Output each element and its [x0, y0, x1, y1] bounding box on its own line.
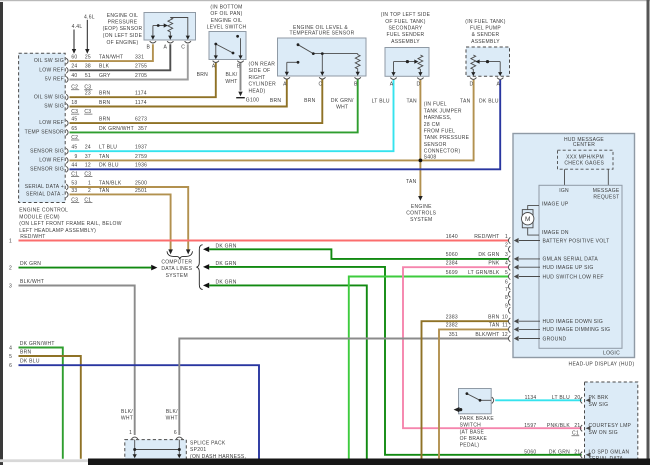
svg-text:OIL SW SIG: OIL SW SIG	[34, 58, 64, 64]
svg-text:MODULE (ECM): MODULE (ECM)	[19, 214, 60, 220]
svg-text:2759: 2759	[135, 154, 147, 160]
node number 2 (left edge)	[9, 266, 12, 272]
svg-text:DK GRN: DK GRN	[478, 252, 499, 258]
svg-text:LOGIC: LOGIC	[603, 351, 620, 357]
svg-text:& SENDER: & SENDER	[472, 32, 500, 38]
svg-text:25: 25	[85, 55, 91, 61]
node number 3 (left edge)	[9, 284, 12, 290]
svg-text:LOW REF: LOW REF	[39, 120, 64, 126]
svg-text:GROUND: GROUND	[543, 336, 567, 342]
label TAN (engine controls branch)	[406, 179, 417, 185]
HUD logic inner box	[539, 185, 622, 348]
splice pack SP201 internals	[135, 440, 180, 455]
HUD pin 4 (HUD image up sig)	[505, 261, 594, 272]
svg-text:5V REF: 5V REF	[45, 77, 64, 83]
HUD pin 5 (HUD switch low ref)	[505, 270, 604, 281]
bottom-left gray strip	[0, 459, 88, 462]
svg-text:SYSTEM: SYSTEM	[410, 217, 432, 223]
svg-text:FROM FUEL: FROM FUEL	[424, 129, 455, 135]
svg-text:2755: 2755	[135, 64, 147, 70]
svg-text:DK GRN: DK GRN	[216, 261, 237, 267]
svg-text:9: 9	[505, 303, 508, 309]
svg-text:38: 38	[85, 64, 91, 70]
oil level & temp sensor pin letters A C B	[283, 81, 358, 87]
svg-text:MESSAGE: MESSAGE	[593, 188, 620, 194]
svg-text:RIGHT: RIGHT	[249, 75, 266, 81]
secondary fuel sender title	[381, 12, 431, 45]
svg-text:33: 33	[71, 188, 77, 194]
HUD pin 6 (unused)	[505, 279, 510, 289]
svg-text:BLK/: BLK/	[121, 409, 133, 415]
left window bar	[0, 2, 3, 465]
svg-text:ENGINE CONTROL: ENGINE CONTROL	[19, 208, 68, 214]
svg-text:ASSEMBLY: ASSEMBLY	[391, 39, 420, 45]
ECM pin number / wire id text rows	[71, 55, 147, 204]
svg-text:DK GRN/WHT: DK GRN/WHT	[20, 341, 55, 347]
park brake switch pin arc	[492, 397, 494, 403]
svg-text:12: 12	[502, 332, 508, 338]
svg-text:SECONDARY: SECONDARY	[388, 26, 422, 32]
svg-text:1174: 1174	[135, 91, 147, 97]
svg-text:5: 5	[9, 354, 12, 360]
node number 6 (left edge)	[9, 363, 12, 369]
svg-text:GMLAN SERIAL DATA: GMLAN SERIAL DATA	[543, 257, 599, 263]
BCM pin pk brk sw sig	[580, 395, 609, 408]
svg-text:LO SPD GMLAN: LO SPD GMLAN	[589, 450, 630, 456]
label 2383 BRN (HUD pin 10 wire)	[446, 315, 500, 321]
label 4.4L	[72, 24, 83, 30]
wire TAN 2759 (ECM to fuel pump sender pin D via S408)	[70, 80, 474, 161]
svg-text:5: 5	[505, 270, 508, 276]
svg-text:24: 24	[71, 64, 77, 70]
node number 1 (left edge)	[9, 239, 12, 245]
wire GRY 2705 (ECM to EOP pin C)	[70, 44, 188, 79]
svg-text:GRY: GRY	[99, 73, 111, 79]
wire stubs message center to logic box	[565, 169, 609, 185]
svg-text:BRN: BRN	[99, 91, 111, 97]
pin 6 (splice pack)	[174, 430, 177, 436]
svg-text:LOW REF: LOW REF	[39, 67, 64, 73]
svg-text:REQUEST: REQUEST	[593, 195, 619, 201]
label BLK/WHT (switch pin B wire)	[225, 72, 237, 85]
svg-text:(IN TOP LEFT SIDE: (IN TOP LEFT SIDE	[381, 12, 431, 18]
svg-text:28 CM: 28 CM	[424, 122, 440, 128]
label 5060 DK GRN 21	[524, 450, 580, 456]
svg-text:3: 3	[505, 252, 508, 258]
svg-text:WHT: WHT	[166, 416, 178, 422]
HUD pin 11 (HUD image dimming sig)	[502, 323, 610, 334]
svg-text:TAN: TAN	[489, 323, 500, 329]
ground G100	[236, 92, 259, 104]
fuel pump & sender pin arcs	[470, 78, 503, 80]
svg-text:DK GRN: DK GRN	[549, 450, 570, 456]
caption PARK BRAKE SWITCH (AT BASE OF BRAKE PEDAL)	[460, 416, 495, 449]
svg-text:CONNECTOR): CONNECTOR)	[424, 149, 461, 155]
wire PNK 2384 / PNK-BLK 1597 (HUD pin 4 to BCM courtesy lamp)	[403, 267, 582, 428]
label BLK/WHT (splice pack pin 6 lead)	[166, 409, 178, 422]
svg-text:53: 53	[71, 180, 77, 186]
label BLK/WHT (splice pack pin 1 lead)	[121, 409, 133, 422]
svg-text:BRN: BRN	[99, 100, 111, 106]
svg-text:BLK: BLK	[99, 64, 110, 70]
svg-text:ENGINE OIL: ENGINE OIL	[211, 18, 242, 24]
svg-text:LOW REF: LOW REF	[39, 158, 64, 164]
svg-text:351: 351	[449, 332, 458, 338]
engine oil level switch box	[209, 32, 246, 60]
svg-text:HARNESS,: HARNESS,	[424, 115, 452, 121]
svg-text:LEVEL SWITCH: LEVEL SWITCH	[207, 25, 247, 31]
svg-text:6: 6	[505, 279, 508, 285]
arrow 4.6L column pointer	[85, 20, 89, 54]
svg-text:1: 1	[505, 234, 508, 240]
wire DK GRN (left, to computer data lines system)	[19, 265, 158, 271]
svg-text:2382: 2382	[446, 323, 458, 329]
svg-text:1640: 1640	[446, 234, 458, 240]
svg-text:2501: 2501	[135, 188, 147, 194]
label 2384 PNK (HUD pin 4 wire)	[446, 261, 500, 267]
park brake switch internals	[466, 392, 492, 401]
svg-text:FUEL SENDER: FUEL SENDER	[387, 32, 425, 38]
svg-text:357: 357	[138, 126, 147, 132]
label 4.6L	[84, 14, 95, 20]
label 5699 LT GRN/BLK (HUD pin 5 wire)	[446, 270, 500, 276]
wire BLK/WHT (left line 3 to splice pack pin 1)	[19, 286, 135, 436]
svg-text:5699: 5699	[446, 270, 458, 276]
svg-text:CYLINDER: CYLINDER	[249, 82, 277, 88]
svg-text:BATTERY POSITIVE VOLT: BATTERY POSITIVE VOLT	[543, 238, 610, 244]
wire LT BLU 1134 (park brake switch to BCM)	[495, 399, 581, 401]
svg-text:HUD SWITCH LOW REF: HUD SWITCH LOW REF	[543, 274, 604, 280]
caption fuel tank jumper harness	[424, 102, 470, 155]
label 1134 LT BLU 20	[525, 395, 581, 401]
label BRN (temp sensor pin A)	[270, 98, 282, 104]
HUD pin 7 (unused)	[505, 287, 510, 297]
svg-text:FUEL PUMP: FUEL PUMP	[470, 26, 501, 32]
svg-text:BRN: BRN	[270, 98, 282, 104]
svg-text:S408: S408	[424, 154, 437, 160]
svg-text:OF FUEL TANK): OF FUEL TANK)	[385, 19, 426, 25]
svg-text:PNK: PNK	[488, 261, 500, 267]
ECM caption text block	[19, 208, 121, 240]
svg-text:4: 4	[505, 261, 508, 267]
svg-text:SIDE OF: SIDE OF	[249, 68, 271, 74]
svg-text:20: 20	[574, 395, 580, 401]
svg-text:RED/WHT: RED/WHT	[20, 234, 45, 240]
wire RED/WHT 1640 (battery positive to HUD pin 1)	[19, 240, 509, 242]
ECM connector box (engine control module)	[19, 53, 66, 202]
svg-text:11: 11	[502, 323, 508, 329]
wire TAN/BLK 2500 (serial data + to computer data lines)	[70, 187, 191, 254]
wire TAN 2382 (HUD pin 11 drop)	[439, 329, 508, 458]
svg-text:23: 23	[85, 91, 91, 97]
brace for DK GRN group (computer data lines)	[196, 245, 202, 290]
ECM pin labels (left column)	[25, 58, 64, 197]
svg-text:PRESSURE: PRESSURE	[108, 19, 138, 25]
label XXX MPH/KPM CHECK GAGES	[564, 154, 604, 166]
HUD pin 8 (unused)	[505, 295, 510, 305]
svg-text:COURTESY LMP: COURTESY LMP	[589, 423, 632, 429]
svg-text:DK GRN: DK GRN	[216, 243, 237, 249]
svg-text:D: D	[469, 82, 473, 88]
svg-text:2: 2	[88, 188, 91, 194]
svg-text:(IN BOTTOM: (IN BOTTOM	[210, 4, 242, 10]
HUD pin 10 (HUD image down sig)	[502, 315, 603, 326]
svg-text:10: 10	[502, 315, 508, 321]
oil level & temp sensor internals	[287, 45, 360, 72]
svg-text:6273: 6273	[135, 117, 147, 123]
wire TAN/WHT 331 (ECM to EOP pin B)	[70, 44, 153, 61]
svg-text:4.6L: 4.6L	[84, 14, 95, 20]
wire TAN 2501 (serial data - to computer data lines)	[70, 194, 173, 254]
connector C1 label	[572, 431, 580, 437]
fuel pump & sender assembly box	[466, 47, 510, 76]
svg-text:BRN: BRN	[197, 72, 209, 78]
svg-text:TAN: TAN	[460, 99, 471, 105]
svg-text:LT BLU: LT BLU	[552, 395, 570, 401]
svg-text:1: 1	[129, 430, 132, 436]
wire LT GRN/BLK 5699 (HUD pin 5 drop)	[349, 277, 508, 459]
fuel pump & sender title	[465, 19, 506, 45]
svg-text:TANK PRESSURE: TANK PRESSURE	[424, 135, 470, 141]
svg-text:A: A	[163, 44, 167, 50]
svg-text:24: 24	[85, 145, 91, 151]
node number 4 (left edge)	[9, 345, 12, 351]
svg-text:3: 3	[9, 284, 12, 290]
oil level & temp sensor pin arcs	[284, 77, 361, 79]
wire BRN 1174 (ECM to oil level switch pin A)	[70, 63, 216, 97]
wire DK BLU (left line 6)	[19, 365, 260, 459]
svg-text:RED/WHT: RED/WHT	[474, 234, 499, 240]
wire BLK/WHT (switch pin B to G100)	[240, 63, 242, 91]
label DK BLU (left line 6)	[20, 359, 40, 365]
label 1640 RED/WHT (right end)	[446, 234, 500, 240]
oil level switch internals	[216, 38, 241, 56]
wire BLK 2755 (ECM to EOP pin A)	[70, 44, 171, 70]
BCM dashed box (body control module)	[585, 382, 638, 462]
EOP potentiometer internals	[153, 18, 188, 36]
wire BRN 2383 (HUD pin 10 drop)	[422, 321, 509, 459]
svg-text:21: 21	[574, 423, 580, 429]
svg-text:A: A	[283, 81, 287, 87]
svg-text:TEMPERATURE SENSOR: TEMPERATURE SENSOR	[290, 31, 355, 37]
svg-text:CENTER: CENTER	[573, 142, 595, 148]
label HEAD-UP DISPLAY (HUD)	[569, 361, 635, 367]
svg-text:45: 45	[71, 145, 77, 151]
EOP sensor title	[103, 13, 143, 46]
svg-text:HUD IMAGE UP SIG: HUD IMAGE UP SIG	[543, 265, 594, 271]
svg-text:PARK BRAKE: PARK BRAKE	[460, 416, 495, 422]
splice pack connector arcs	[132, 437, 183, 439]
EOP sensor box	[144, 13, 196, 41]
svg-text:(IN FUEL TANK): (IN FUEL TANK)	[465, 19, 506, 25]
svg-text:M: M	[525, 216, 530, 223]
svg-text:DK BLU: DK BLU	[20, 359, 40, 365]
label TAN (fuel pump pin D)	[460, 99, 471, 105]
svg-text:OIL SW SIG: OIL SW SIG	[34, 94, 64, 100]
svg-text:XXX MPH/KPM: XXX MPH/KPM	[566, 154, 604, 160]
wires to HUD image motor	[528, 206, 539, 236]
node ENGINE CONTROLS SYSTEM	[406, 204, 436, 223]
svg-text:LT BLU: LT BLU	[99, 145, 117, 151]
HUD pin 9 (unused)	[505, 303, 510, 313]
svg-text:1936: 1936	[135, 163, 147, 169]
wire DK GRN 5060 (computer data lines to HUD pin 3)	[203, 247, 508, 259]
svg-text:6: 6	[174, 430, 177, 436]
svg-text:TAN: TAN	[99, 154, 110, 160]
svg-text:60: 60	[71, 55, 77, 61]
wire DK BLU 1936 (ECM to fuel pump sender pin A)	[70, 80, 501, 170]
label LT BLU	[372, 99, 390, 105]
svg-text:21: 21	[574, 450, 580, 456]
bottom black bar	[88, 459, 650, 465]
svg-text:BRN: BRN	[99, 117, 111, 123]
label DK BLU (fuel pump pin A)	[479, 99, 499, 105]
svg-text:2383: 2383	[446, 315, 458, 321]
svg-text:HUD IMAGE DIMMING SIG: HUD IMAGE DIMMING SIG	[543, 327, 611, 333]
wire BRN 6273 (ECM to oil level/temp sensor pin C)	[70, 79, 323, 123]
svg-text:45: 45	[71, 117, 77, 123]
svg-text:D: D	[417, 82, 421, 88]
svg-text:COMPUTER: COMPUTER	[161, 259, 192, 265]
secondary fuel sender assembly box	[385, 48, 429, 77]
label DK GRN (arrow row 2)	[216, 261, 237, 267]
svg-text:1937: 1937	[135, 145, 147, 151]
svg-text:TAN/WHT: TAN/WHT	[99, 55, 123, 61]
svg-text:51: 51	[85, 73, 91, 79]
svg-text:DK BLU: DK BLU	[479, 99, 499, 105]
caption (ON REAR SIDE OF RIGHT CYLINDER HEAD)	[249, 61, 277, 94]
label LOGIC	[603, 351, 620, 357]
svg-text:6: 6	[9, 363, 12, 369]
wire TAN branch (sec fuel sender pin D down to engine controls arrow)	[418, 80, 423, 201]
svg-text:18: 18	[71, 100, 77, 106]
svg-text:BRN: BRN	[20, 349, 32, 355]
label HUD MESSAGE CENTER	[564, 137, 604, 148]
svg-text:DK GRN: DK GRN	[216, 280, 237, 286]
svg-text:5060: 5060	[446, 252, 458, 258]
node COMPUTER DATA LINES SYSTEM	[161, 259, 192, 279]
svg-text:SW SIG: SW SIG	[589, 402, 609, 408]
node number 5 (left edge)	[9, 354, 12, 360]
park brake pedal actuator arrow	[454, 407, 463, 412]
svg-text:40: 40	[71, 73, 77, 79]
svg-text:9: 9	[74, 154, 77, 160]
svg-text:DK GRN/WHT: DK GRN/WHT	[99, 126, 134, 132]
label DK GRN (arrow row 1)	[216, 243, 237, 249]
EOP pin letters B A C	[146, 44, 185, 50]
label BRN (switch pin A wire)	[197, 72, 209, 78]
svg-text:A: A	[390, 82, 394, 88]
wire BRN (left line 5)	[19, 356, 81, 459]
head-up display HUD outer box	[513, 134, 635, 358]
svg-text:WHT: WHT	[121, 416, 133, 422]
svg-text:DK GRN/: DK GRN/	[331, 98, 354, 104]
svg-text:SWITCH: SWITCH	[460, 423, 482, 429]
oil level & temp sensor title	[290, 25, 355, 37]
brace over serial data arrows	[167, 251, 193, 259]
svg-text:SENSOR: SENSOR	[424, 142, 447, 148]
svg-text:2384: 2384	[446, 261, 458, 267]
label MESSAGE REQUEST	[593, 188, 620, 201]
label DK GRN (arrow row 3)	[216, 280, 237, 286]
svg-text:4: 4	[9, 345, 12, 351]
right window bar	[647, 0, 650, 465]
svg-text:HEAD-UP DISPLAY (HUD): HEAD-UP DISPLAY (HUD)	[569, 361, 635, 367]
label BLK/WHT (left line 3)	[20, 279, 44, 285]
svg-text:ASSEMBLY: ASSEMBLY	[471, 39, 500, 45]
svg-text:SENSOR SIG: SENSOR SIG	[30, 148, 64, 154]
HUD pin 2 (unused)	[505, 242, 510, 252]
label IMAGE UP	[542, 201, 569, 207]
svg-text:DK GRN: DK GRN	[20, 261, 41, 267]
wire DK GRN/WHT (left line 4)	[19, 348, 63, 459]
motor M (HUD image)	[522, 210, 534, 228]
label DK GRN (left line 2)	[20, 261, 41, 267]
svg-text:C: C	[181, 44, 185, 50]
label 2382 TAN (HUD pin 11 wire)	[446, 323, 500, 329]
svg-text:(ON REAR: (ON REAR	[249, 61, 276, 67]
svg-text:IGN: IGN	[559, 188, 569, 194]
svg-text:IMAGE UP: IMAGE UP	[542, 201, 569, 207]
engine oil level & temperature sensor box	[278, 38, 367, 76]
svg-text:OF ENGINE): OF ENGINE)	[107, 40, 139, 46]
secondary fuel sender pin letters A D	[390, 82, 421, 88]
svg-text:SP201: SP201	[190, 447, 206, 453]
svg-text:WHT: WHT	[225, 79, 237, 85]
svg-text:BRN: BRN	[488, 315, 500, 321]
svg-text:PNK/BLK: PNK/BLK	[547, 423, 570, 429]
svg-text:TAN: TAN	[406, 179, 417, 185]
svg-text:B: B	[354, 81, 358, 87]
fuel pump & sender pin letters D A	[469, 82, 500, 88]
HUD pin 3 (GMLAN serial data)	[505, 252, 598, 263]
svg-text:OF BRAKE: OF BRAKE	[460, 436, 488, 442]
svg-text:SYSTEM: SYSTEM	[166, 273, 188, 279]
label 351 BLK/WHT (HUD pin 12 wire)	[449, 332, 500, 338]
svg-text:8: 8	[505, 295, 508, 301]
label TAN (sec fuel sender pin D)	[406, 99, 417, 105]
svg-text:BLK/WHT: BLK/WHT	[20, 279, 44, 285]
svg-text:(IN FUEL: (IN FUEL	[424, 102, 447, 108]
svg-text:TAN/BLK: TAN/BLK	[99, 180, 122, 186]
svg-text:SW SIG: SW SIG	[44, 104, 64, 110]
svg-text:LT GRN/BLK: LT GRN/BLK	[468, 270, 500, 276]
HUD message center dashed box	[558, 150, 614, 169]
HUD pin 12 (ground)	[502, 332, 567, 343]
splice pack SP201 box	[125, 440, 187, 460]
svg-text:37: 37	[85, 154, 91, 160]
svg-text:A: A	[496, 82, 500, 88]
BCM pin lo spd gmlan serial data	[580, 450, 629, 463]
svg-text:ENGINE OIL: ENGINE OIL	[107, 13, 138, 19]
svg-text:DATA LINES: DATA LINES	[161, 266, 192, 272]
svg-text:(ON LEFT SIDE: (ON LEFT SIDE	[103, 33, 143, 39]
svg-text:44: 44	[71, 163, 77, 169]
wire DK GRN 5060 (computer data lines to BCM lo-spd GMLAN)	[203, 264, 582, 455]
svg-text:1597: 1597	[524, 423, 536, 429]
svg-text:1174: 1174	[135, 100, 147, 106]
svg-text:TAN: TAN	[406, 99, 417, 105]
svg-text:BLK/: BLK/	[166, 409, 178, 415]
svg-text:SENSOR SIG: SENSOR SIG	[30, 166, 64, 172]
svg-text:A: A	[212, 64, 216, 70]
splice S408	[419, 154, 437, 162]
svg-text:4.4L: 4.4L	[72, 24, 83, 30]
wire DK GRN (computer data lines, third drop)	[203, 283, 367, 459]
svg-text:BLK/: BLK/	[226, 72, 238, 78]
svg-text:TAN: TAN	[99, 188, 110, 194]
svg-text:SW ON SIG: SW ON SIG	[589, 430, 618, 436]
